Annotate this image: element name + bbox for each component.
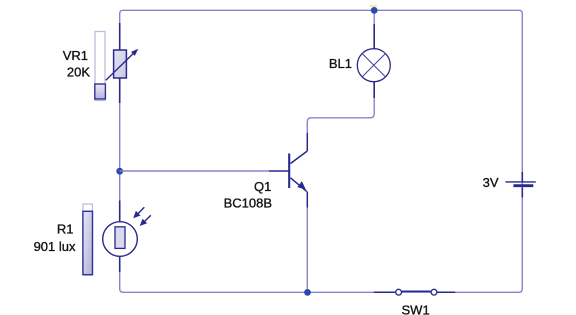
lamp BL1: [357, 49, 390, 82]
battery B1: [505, 182, 535, 186]
wire base lead navy: [269, 170, 289, 172]
wire bulb to top: [373, 11, 375, 24]
battery lead top: [521, 172, 523, 181]
slider thumb VR1: [95, 84, 106, 99]
node junction dot bottom: [304, 289, 311, 296]
switch SW1: [396, 289, 437, 295]
svg-text:901 lux: 901 lux: [34, 239, 76, 254]
LDR arrow 1: [133, 207, 144, 218]
wire R1 top lead: [119, 201, 121, 223]
svg-text:SW1: SW1: [402, 302, 430, 315]
svg-text:3V: 3V: [483, 175, 499, 190]
svg-text:BL1: BL1: [329, 56, 352, 71]
switch SW1 lead right: [437, 291, 455, 293]
LDR R1: [103, 222, 138, 257]
wire collector to bulb: [307, 98, 374, 133]
svg-text:20K: 20K: [67, 65, 90, 80]
svg-text:VR1: VR1: [63, 48, 88, 63]
switch SW1 lead left: [374, 291, 396, 293]
wire emitter to bottom: [306, 208, 308, 290]
battery lead bottom: [521, 188, 523, 198]
variable resistor VR1 body: [114, 50, 127, 78]
VR1 arrow: [106, 49, 139, 81]
bulb BL1 lead top: [373, 24, 375, 49]
yellow mark: [370, 5, 377, 7]
slider track R1: [83, 204, 92, 275]
slider track VR1: [95, 32, 105, 101]
node junction dot left: [116, 168, 123, 175]
svg-text:Q1: Q1: [254, 179, 271, 194]
bulb BL1 lead bottom: [373, 81, 375, 98]
wire main loop: [120, 10, 523, 292]
node junction dot top: [371, 7, 378, 14]
svg-text:R1: R1: [57, 222, 74, 237]
wire base: [120, 170, 269, 172]
wire VR1 top lead: [119, 23, 121, 103]
wire R1 bottom lead: [119, 256, 121, 272]
svg-text:BC108B: BC108B: [224, 195, 272, 210]
transistor Q1: [289, 133, 307, 208]
slider fill R1: [83, 211, 93, 274]
LDR arrow 2: [140, 215, 151, 226]
